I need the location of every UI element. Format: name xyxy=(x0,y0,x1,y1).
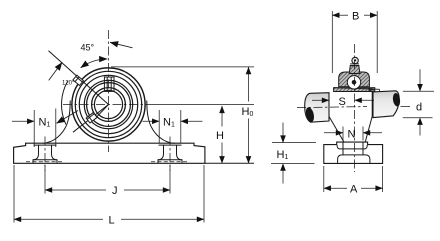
svg-text:N1: N1 xyxy=(163,117,175,129)
svg-text:S: S xyxy=(339,96,346,108)
svg-text:H0: H0 xyxy=(242,106,254,118)
svg-text:45°: 45° xyxy=(81,43,95,53)
svg-text:N1: N1 xyxy=(39,117,51,129)
svg-text:H1: H1 xyxy=(277,149,289,161)
svg-text:B: B xyxy=(352,11,359,23)
svg-text:H: H xyxy=(216,130,224,142)
svg-text:L: L xyxy=(109,215,115,227)
svg-text:N: N xyxy=(348,129,356,141)
svg-text:120°: 120° xyxy=(62,80,75,86)
svg-text:J: J xyxy=(112,185,118,197)
svg-text:d: d xyxy=(416,102,422,114)
svg-text:A: A xyxy=(350,184,358,196)
